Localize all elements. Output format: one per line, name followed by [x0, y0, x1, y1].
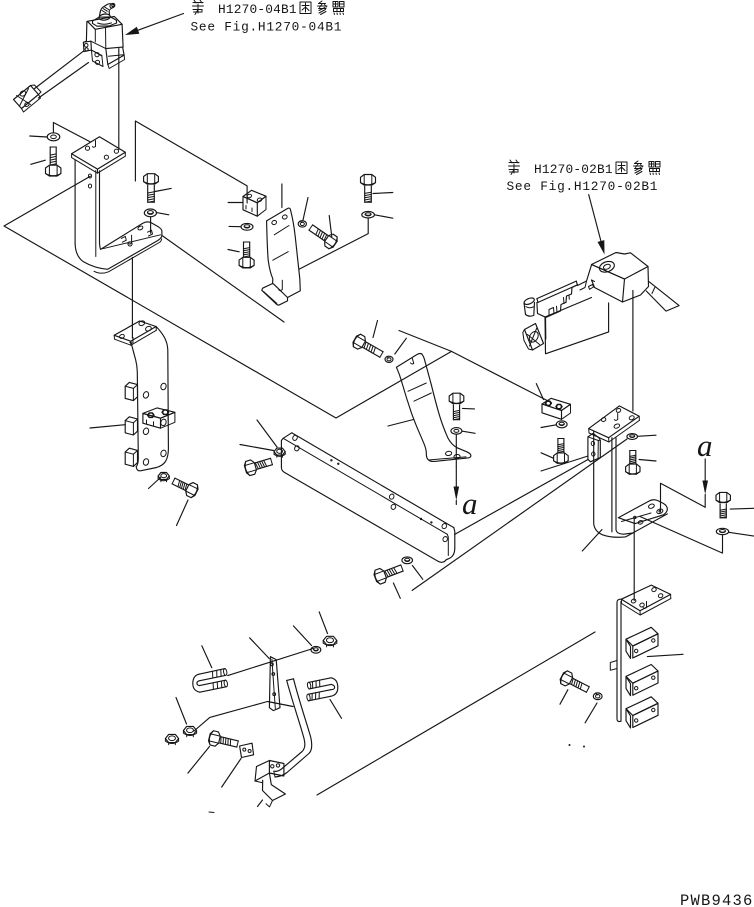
- bolt: [449, 393, 464, 403]
- bracket, bent strap (middle): [267, 208, 301, 297]
- bolt: [559, 670, 592, 696]
- nut: [323, 636, 337, 644]
- bolt: [361, 175, 376, 186]
- washer: [241, 223, 253, 230]
- washer: [627, 434, 638, 440]
- lock washer: [385, 356, 393, 362]
- bolt: [170, 475, 199, 499]
- construction line: [399, 331, 452, 352]
- bracket, ladder blocks (right): [621, 585, 670, 611]
- leader to bracket: [388, 420, 414, 427]
- svg-text:a: a: [697, 428, 713, 463]
- washer: [556, 421, 567, 428]
- leader: [228, 649, 313, 676]
- svg-text:See Fig.H1270-04B1: See Fig.H1270-04B1: [191, 20, 343, 35]
- svg-text:See Fig.H1270-02B1: See Fig.H1270-02B1: [507, 179, 659, 194]
- bolt: [208, 730, 240, 751]
- bolt: [243, 454, 273, 476]
- svg-text:H1270-02B1: H1270-02B1: [534, 162, 613, 177]
- construction line: [317, 632, 595, 795]
- nut: [158, 473, 169, 480]
- svg-text:H1270-04B1: H1270-04B1: [218, 2, 297, 17]
- bolt: [351, 333, 385, 361]
- bolt: [373, 561, 405, 585]
- bracket, block column (left): [114, 321, 156, 341]
- bracket, mounting (left tall): [72, 137, 126, 169]
- U-bolt: [309, 678, 331, 683]
- bolt: [554, 453, 569, 463]
- solenoid valve assembly (see Fig.H1270-04B1): [99, 13, 111, 21]
- U-bolt: [199, 669, 225, 675]
- section arrow a: [455, 467, 457, 487]
- plate, side (on U bracket): [588, 434, 600, 462]
- washer: [451, 428, 462, 435]
- leader to U bottom: [582, 530, 602, 552]
- leader from ladder: [647, 654, 683, 656]
- pipe, bent tube: [274, 680, 305, 771]
- leader valve to bracket: [118, 49, 120, 150]
- washer: [402, 557, 413, 564]
- bolt: [46, 165, 61, 176]
- washer: [144, 209, 156, 217]
- bolt: [716, 492, 730, 502]
- bolt: [239, 257, 254, 268]
- washer: [47, 133, 60, 141]
- leader foot to flange: [131, 258, 133, 339]
- plate, long angle: [292, 433, 454, 528]
- construction line: [412, 439, 627, 590]
- construction line: [455, 460, 589, 535]
- clamp block: [243, 190, 266, 203]
- bolt: [626, 464, 640, 474]
- clamp piece: [240, 743, 254, 757]
- lock washer: [298, 221, 306, 227]
- bracket, bent (top of plate): [396, 354, 471, 462]
- washer: [362, 211, 375, 218]
- bolt: [307, 222, 339, 251]
- clamp block: [542, 398, 571, 410]
- nut: [274, 448, 285, 455]
- leader foot to ladder: [633, 518, 635, 601]
- tiny dash: [209, 811, 214, 814]
- svg-text:PWB9436: PWB9436: [680, 892, 754, 907]
- solenoid valve assembly (see Fig.H1270-02B1): [545, 298, 609, 354]
- nut: [183, 726, 196, 734]
- lock washer: [593, 693, 602, 700]
- washer: [311, 646, 321, 653]
- center dots: [569, 744, 571, 746]
- svg-text:a: a: [462, 486, 478, 521]
- leader: [194, 702, 293, 732]
- leader valve2 to bracket: [632, 291, 634, 412]
- leader to clamp block: [135, 121, 247, 203]
- bracket, Z-shaped: [269, 761, 284, 777]
- arrow to valve2: [589, 195, 601, 241]
- leader to side plate: [541, 456, 588, 471]
- bolt: [144, 174, 159, 184]
- leader to block bracket: [90, 425, 125, 428]
- washer: [716, 528, 728, 534]
- arrow to valve: [138, 14, 183, 31]
- nut: [165, 734, 178, 742]
- plate, strip: [269, 657, 280, 711]
- leader from foot: [162, 236, 284, 323]
- panel edge lines: [4, 176, 552, 418]
- bracket, U-shaped (right): [589, 406, 640, 438]
- leader to bent bracket: [281, 184, 283, 208]
